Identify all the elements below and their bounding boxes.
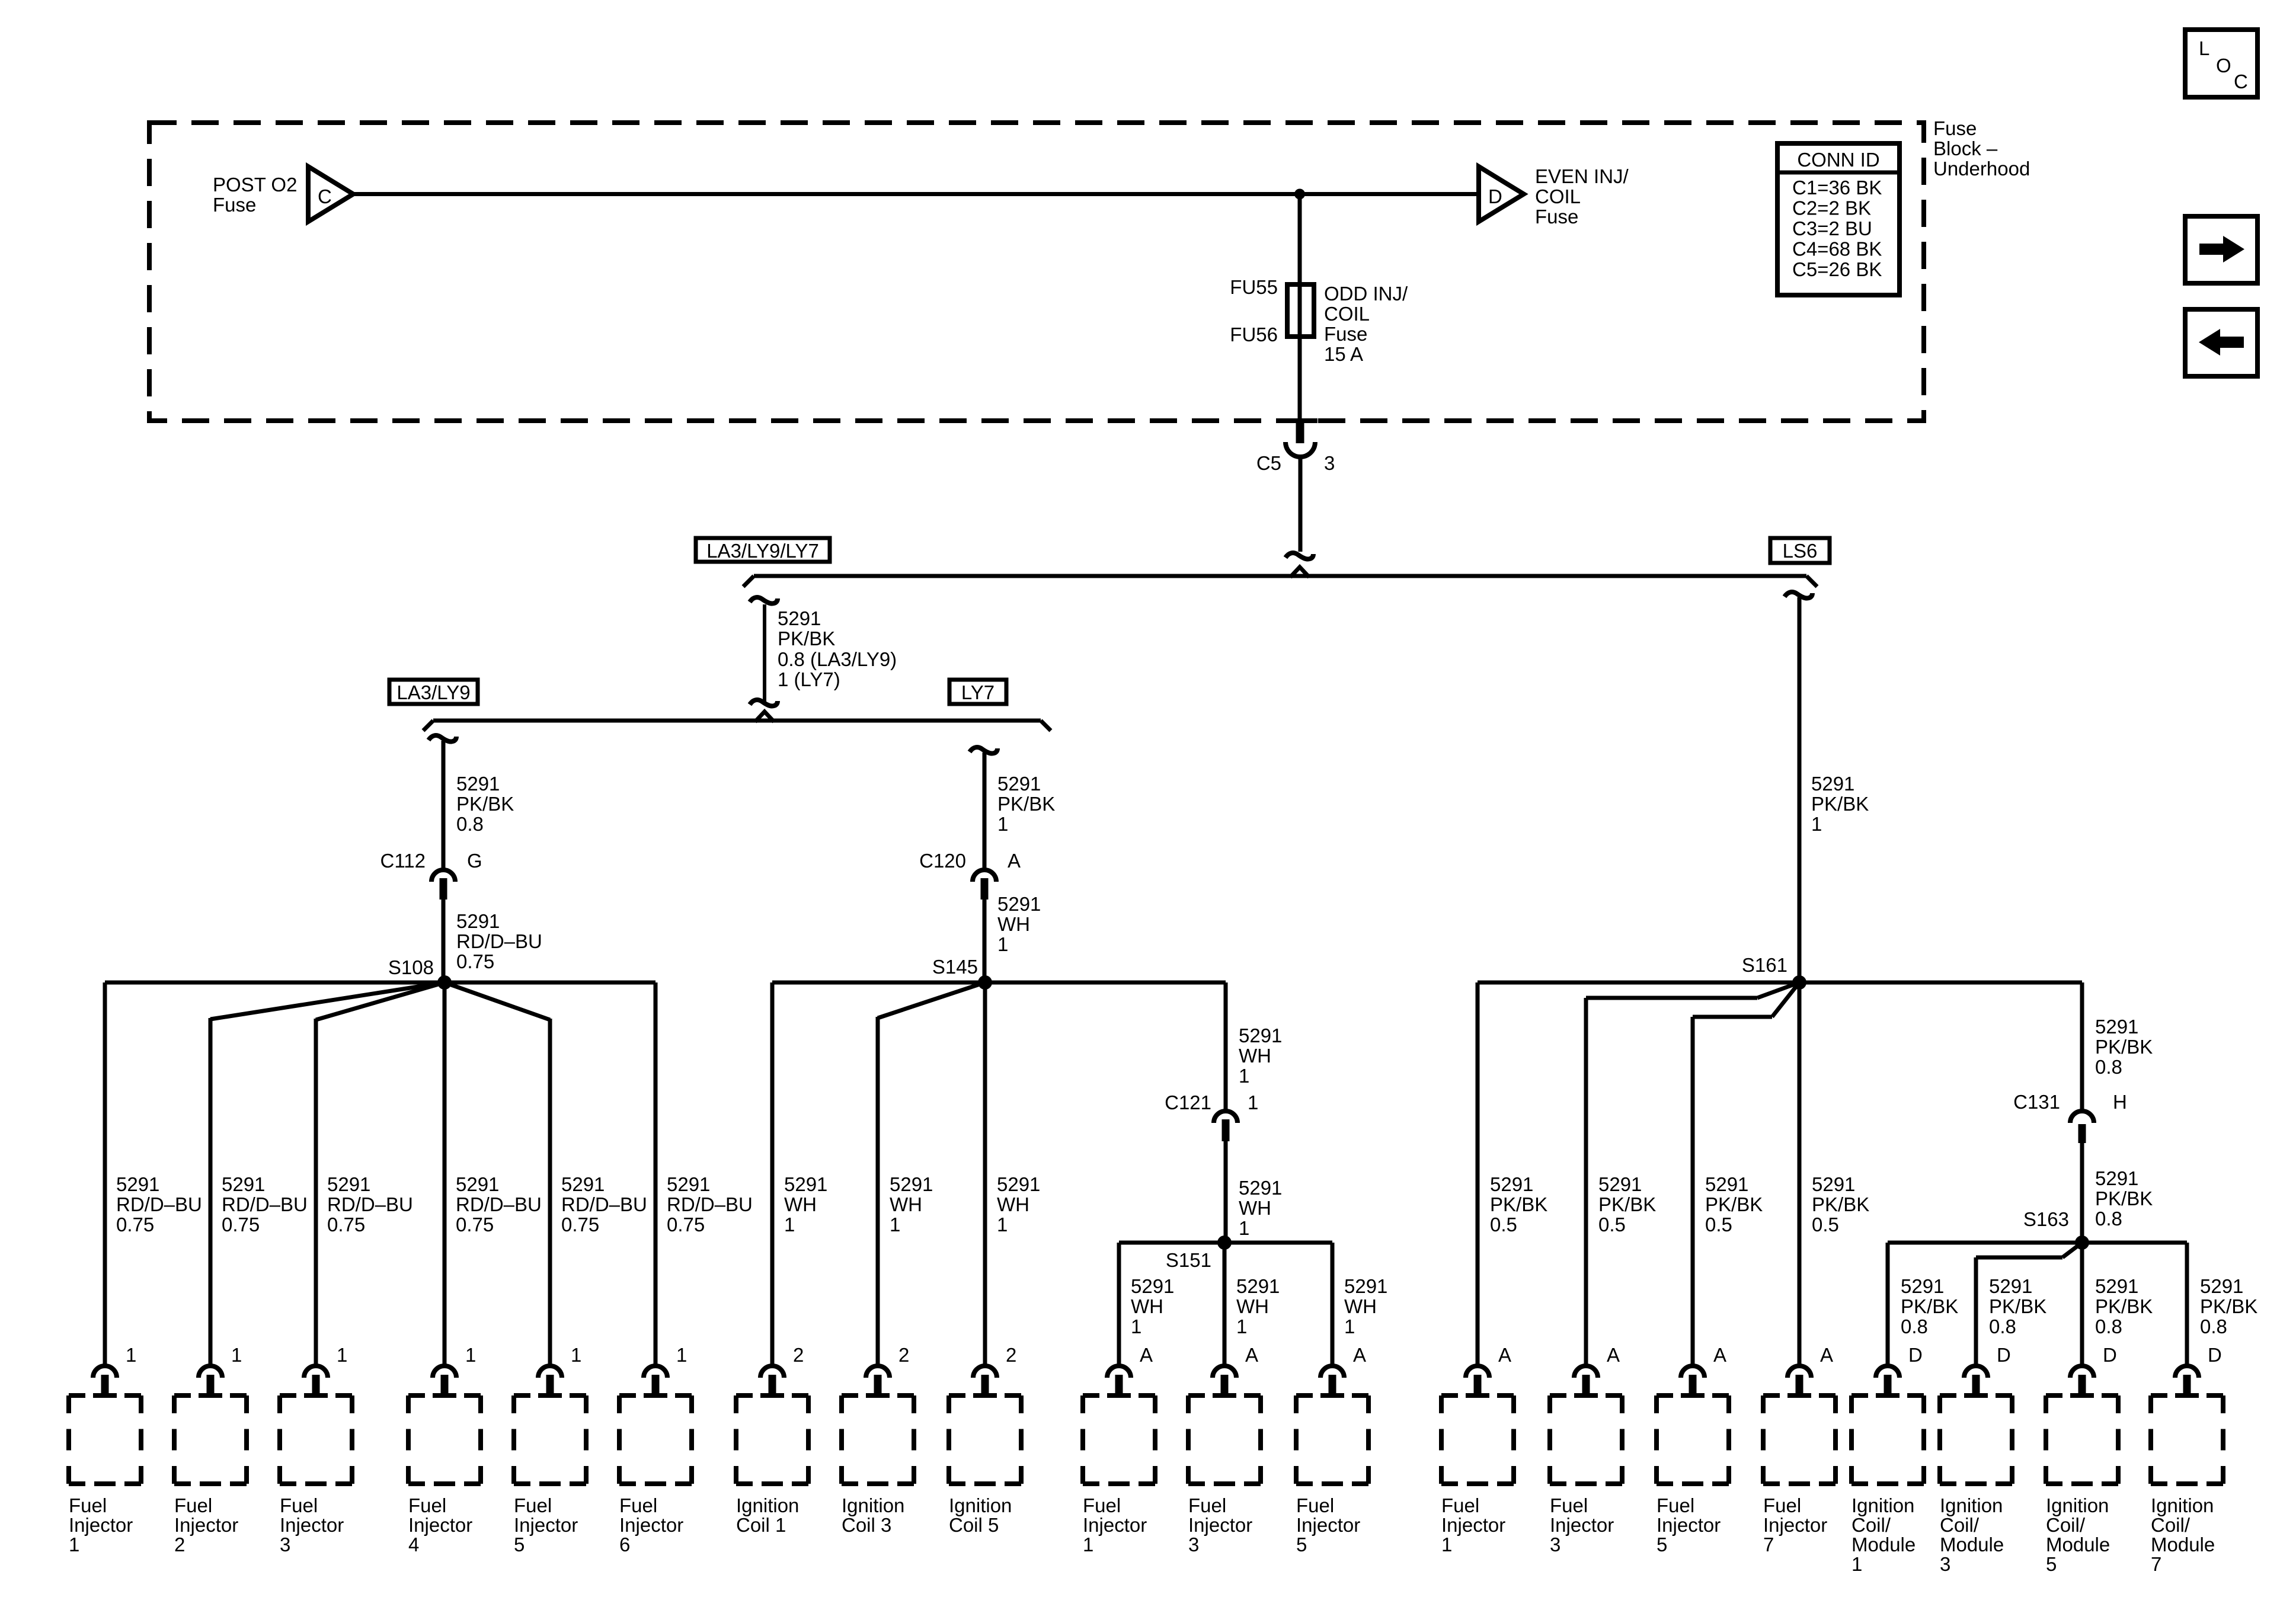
svg-text:S163: S163 bbox=[2023, 1208, 2069, 1230]
svg-text:Coil 3: Coil 3 bbox=[842, 1514, 891, 1536]
fuel injector 3 box bbox=[280, 1395, 352, 1484]
wire S163 to coil/module 3 bbox=[2062, 1243, 2082, 1257]
svg-text:1: 1 bbox=[1239, 1217, 1249, 1239]
svg-text:1: 1 bbox=[337, 1344, 347, 1366]
wire S151 to fuel injector 5 bbox=[1331, 1243, 1335, 1364]
svg-text:C121: C121 bbox=[1165, 1092, 1211, 1113]
svg-text:0.5: 0.5 bbox=[1812, 1214, 1839, 1235]
svg-text:Module: Module bbox=[2046, 1534, 2110, 1555]
svg-text:5: 5 bbox=[2046, 1553, 2057, 1575]
svg-text:FU56: FU56 bbox=[1230, 324, 1278, 345]
svg-text:2: 2 bbox=[793, 1344, 804, 1366]
connector C (POST O2 Fuse) triangle bbox=[308, 167, 353, 222]
svg-text:0.5: 0.5 bbox=[1598, 1214, 1626, 1235]
svg-text:Fuel: Fuel bbox=[619, 1494, 657, 1516]
svg-text:4: 4 bbox=[408, 1534, 419, 1555]
svg-text:A: A bbox=[1353, 1344, 1366, 1366]
svg-text:0.8: 0.8 bbox=[2095, 1056, 2122, 1078]
svg-text:Coil/: Coil/ bbox=[1851, 1514, 1891, 1536]
svg-text:0.5: 0.5 bbox=[1490, 1214, 1517, 1235]
svg-text:Ignition: Ignition bbox=[1851, 1494, 1914, 1516]
svg-text:Injector: Injector bbox=[1441, 1514, 1505, 1536]
svg-text:Fuse: Fuse bbox=[1324, 323, 1367, 345]
svg-text:D: D bbox=[1488, 185, 1502, 207]
svg-text:3: 3 bbox=[1550, 1534, 1560, 1555]
ignition coil/module 3 box bbox=[1940, 1395, 2012, 1484]
svg-text:RD/D–BU: RD/D–BU bbox=[456, 930, 542, 952]
fuse ODD INJ/COIL 15A element bbox=[1287, 284, 1314, 337]
svg-text:5291: 5291 bbox=[456, 910, 500, 932]
previous page arrow box bbox=[2185, 309, 2257, 376]
mid fuel injector 5 box bbox=[1296, 1395, 1368, 1484]
svg-text:PK/BK: PK/BK bbox=[1705, 1193, 1763, 1215]
fuse block - underhood dashed box bbox=[149, 123, 1924, 421]
svg-text:1: 1 bbox=[126, 1344, 136, 1366]
svg-text:Fuel: Fuel bbox=[1763, 1494, 1801, 1516]
fuel injector 2 box bbox=[174, 1395, 247, 1484]
svg-text:1: 1 bbox=[1236, 1315, 1247, 1337]
svg-text:5291: 5291 bbox=[890, 1173, 933, 1195]
svg-text:Fuel: Fuel bbox=[174, 1494, 212, 1516]
wire S145 to ignition coil 3 bbox=[878, 982, 985, 1018]
svg-text:S145: S145 bbox=[932, 956, 978, 978]
wire S163 to coil/module 1 bbox=[1886, 1243, 1890, 1364]
svg-text:1: 1 bbox=[69, 1534, 79, 1555]
svg-text:Injector: Injector bbox=[69, 1514, 133, 1536]
svg-text:15 A: 15 A bbox=[1324, 343, 1363, 365]
svg-text:3: 3 bbox=[280, 1534, 290, 1555]
wire fuse to fuse block edge bbox=[1298, 337, 1302, 422]
svg-text:RD/D–BU: RD/D–BU bbox=[116, 1193, 202, 1215]
svg-text:5291: 5291 bbox=[2095, 1167, 2138, 1189]
label box LY7 bbox=[949, 680, 1006, 704]
svg-text:PK/BK: PK/BK bbox=[1598, 1193, 1656, 1215]
svg-text:C: C bbox=[2234, 71, 2248, 92]
CONN ID table bbox=[1777, 143, 1900, 295]
svg-text:3: 3 bbox=[1188, 1534, 1199, 1555]
svg-text:5291: 5291 bbox=[1236, 1275, 1280, 1297]
svg-text:Fuel: Fuel bbox=[1083, 1494, 1121, 1516]
svg-text:A: A bbox=[1820, 1344, 1833, 1366]
svg-text:ODD INJ/: ODD INJ/ bbox=[1324, 283, 1408, 305]
svg-text:5291: 5291 bbox=[667, 1173, 710, 1195]
svg-text:LY7: LY7 bbox=[961, 681, 994, 703]
svg-text:5291: 5291 bbox=[1131, 1275, 1174, 1297]
wire S161 to fuel injector 1 (right) bbox=[1476, 982, 1480, 1364]
svg-text:0.75: 0.75 bbox=[561, 1214, 599, 1235]
wire POST O2 to EVEN INJ fuse bbox=[353, 192, 1479, 196]
svg-text:5291: 5291 bbox=[997, 773, 1041, 795]
svg-text:1: 1 bbox=[997, 933, 1008, 955]
svg-text:WH: WH bbox=[890, 1193, 922, 1215]
svg-text:RD/D–BU: RD/D–BU bbox=[667, 1193, 753, 1215]
svg-text:5291: 5291 bbox=[1705, 1173, 1748, 1195]
svg-text:0.8: 0.8 bbox=[456, 813, 484, 835]
svg-text:FU55: FU55 bbox=[1230, 276, 1278, 298]
svg-text:O: O bbox=[2216, 55, 2231, 76]
right fuel injector 5 box bbox=[1657, 1395, 1729, 1484]
ignition coil/module 5 box bbox=[2046, 1395, 2118, 1484]
svg-text:0.8: 0.8 bbox=[2095, 1208, 2122, 1230]
wire S151 to fuel injector 1 bbox=[1117, 1243, 1121, 1364]
svg-text:EVEN INJ/: EVEN INJ/ bbox=[1535, 165, 1629, 187]
svg-text:Injector: Injector bbox=[619, 1514, 683, 1536]
wire C120 to S145 bbox=[983, 900, 987, 982]
svg-text:5291: 5291 bbox=[1598, 1173, 1642, 1195]
wire C131 to S163 bbox=[2080, 1143, 2084, 1243]
svg-text:Coil/: Coil/ bbox=[2151, 1514, 2191, 1536]
svg-text:PK/BK: PK/BK bbox=[1811, 793, 1869, 815]
svg-text:6: 6 bbox=[619, 1534, 630, 1555]
svg-text:C2=2 BK: C2=2 BK bbox=[1792, 197, 1871, 219]
S161 splice bus bbox=[1478, 981, 2082, 985]
svg-text:0.75: 0.75 bbox=[456, 1214, 494, 1235]
svg-text:Injector: Injector bbox=[174, 1514, 238, 1536]
svg-text:5291: 5291 bbox=[456, 773, 500, 795]
svg-text:5291: 5291 bbox=[1344, 1275, 1387, 1297]
wire C112 to S108 bbox=[442, 900, 446, 982]
LOC symbol box bbox=[2185, 30, 2257, 97]
svg-text:1: 1 bbox=[1851, 1553, 1862, 1575]
svg-text:5291: 5291 bbox=[1901, 1275, 1944, 1297]
svg-text:5291: 5291 bbox=[778, 607, 821, 629]
svg-text:S151: S151 bbox=[1166, 1249, 1211, 1271]
svg-text:0.8: 0.8 bbox=[1901, 1315, 1928, 1337]
svg-text:C131: C131 bbox=[2013, 1091, 2060, 1113]
svg-text:PK/BK: PK/BK bbox=[2200, 1295, 2257, 1317]
wire S161 to fuel injector 3 (right) bbox=[1757, 982, 1799, 998]
svg-text:LA3/LY9: LA3/LY9 bbox=[396, 681, 470, 703]
svg-text:Fuel: Fuel bbox=[69, 1494, 107, 1516]
svg-text:PK/BK: PK/BK bbox=[2095, 1188, 2153, 1209]
svg-text:Fuel: Fuel bbox=[514, 1494, 552, 1516]
connector C5 pin 3 bbox=[1296, 422, 1304, 443]
svg-text:0.8 (LA3/LY9): 0.8 (LA3/LY9) bbox=[778, 648, 897, 670]
svg-text:A: A bbox=[1607, 1344, 1620, 1366]
svg-text:A: A bbox=[1140, 1344, 1153, 1366]
svg-text:Fuel: Fuel bbox=[280, 1494, 318, 1516]
svg-text:5: 5 bbox=[514, 1534, 525, 1555]
svg-text:C3=2 BU: C3=2 BU bbox=[1792, 217, 1872, 239]
svg-text:PK/BK: PK/BK bbox=[2095, 1295, 2153, 1317]
svg-text:RD/D–BU: RD/D–BU bbox=[327, 1193, 413, 1215]
svg-text:Fuel: Fuel bbox=[408, 1494, 446, 1516]
wire C5 to engine split bbox=[1299, 456, 1303, 552]
svg-text:5291: 5291 bbox=[116, 1173, 159, 1195]
svg-text:C112: C112 bbox=[380, 850, 426, 872]
svg-text:1: 1 bbox=[1248, 1092, 1258, 1113]
ignition coil 5 box bbox=[949, 1395, 1021, 1484]
svg-text:S161: S161 bbox=[1742, 954, 1787, 976]
wire LA3/LY9 branch hook bbox=[428, 735, 456, 742]
svg-text:Injector: Injector bbox=[280, 1514, 344, 1536]
svg-text:3: 3 bbox=[1940, 1553, 1950, 1575]
svg-text:Coil 5: Coil 5 bbox=[949, 1514, 999, 1536]
svg-text:5291: 5291 bbox=[222, 1173, 265, 1195]
svg-text:7: 7 bbox=[2151, 1553, 2161, 1575]
wire S108 to fuel injector 3 bbox=[316, 982, 445, 1020]
svg-text:WH: WH bbox=[1344, 1295, 1377, 1317]
svg-text:0.8: 0.8 bbox=[2200, 1315, 2227, 1337]
next page arrow box bbox=[2185, 216, 2257, 283]
svg-text:Ignition: Ignition bbox=[1940, 1494, 2003, 1516]
svg-text:5: 5 bbox=[1296, 1534, 1307, 1555]
mid fuel injector 1 box bbox=[1083, 1395, 1155, 1484]
svg-text:CONN ID: CONN ID bbox=[1797, 149, 1879, 171]
svg-text:5291: 5291 bbox=[456, 1173, 499, 1195]
svg-text:1: 1 bbox=[1811, 813, 1822, 835]
svg-text:Module: Module bbox=[1851, 1534, 1916, 1555]
svg-text:PK/BK: PK/BK bbox=[1989, 1295, 2046, 1317]
wire S161 to C131 bbox=[2080, 982, 2084, 1110]
svg-text:WH: WH bbox=[1236, 1295, 1269, 1317]
svg-text:Coil/: Coil/ bbox=[1940, 1514, 1980, 1536]
svg-text:COIL: COIL bbox=[1324, 303, 1370, 325]
svg-text:Fuse: Fuse bbox=[1933, 117, 1977, 139]
wire LY7 to C120 bbox=[983, 753, 987, 869]
svg-text:G: G bbox=[467, 850, 482, 872]
svg-text:Injector: Injector bbox=[1296, 1514, 1360, 1536]
svg-text:Ignition: Ignition bbox=[2151, 1494, 2214, 1516]
wire LS6 branch hook bbox=[1785, 592, 1812, 598]
svg-text:5291: 5291 bbox=[997, 893, 1041, 915]
svg-text:Underhood: Underhood bbox=[1933, 158, 2030, 180]
svg-text:1: 1 bbox=[571, 1344, 581, 1366]
svg-text:Coil/: Coil/ bbox=[2046, 1514, 2086, 1536]
svg-text:Block –: Block – bbox=[1933, 137, 1998, 159]
wire S161 to fuel injector 7 bbox=[1798, 982, 1802, 1364]
svg-text:RD/D–BU: RD/D–BU bbox=[456, 1193, 542, 1215]
svg-text:5291: 5291 bbox=[784, 1173, 827, 1195]
svg-text:0.8: 0.8 bbox=[1989, 1315, 2016, 1337]
label box LA3/LY9/LY7 bbox=[696, 538, 830, 562]
svg-text:C: C bbox=[318, 185, 332, 207]
svg-text:Ignition: Ignition bbox=[736, 1494, 799, 1516]
svg-text:PK/BK: PK/BK bbox=[1490, 1193, 1547, 1215]
svg-text:1: 1 bbox=[1131, 1315, 1141, 1337]
svg-text:5291: 5291 bbox=[2200, 1275, 2243, 1297]
mid fuel injector 3 box bbox=[1188, 1395, 1261, 1484]
wire LS6 to S161 bbox=[1798, 597, 1802, 982]
svg-text:RD/D–BU: RD/D–BU bbox=[222, 1193, 308, 1215]
svg-text:5291: 5291 bbox=[561, 1173, 605, 1195]
svg-text:A: A bbox=[1008, 850, 1021, 872]
wire S108 to fuel injector 1 bbox=[103, 982, 107, 1364]
svg-text:0.75: 0.75 bbox=[222, 1214, 260, 1235]
svg-text:0.75: 0.75 bbox=[116, 1214, 154, 1235]
wire S108 to fuel injector 5 bbox=[445, 982, 550, 1020]
wire split bus (LA3/LY9 - LY7) bbox=[433, 719, 1041, 723]
svg-text:Injector: Injector bbox=[1763, 1514, 1827, 1536]
svg-text:0.75: 0.75 bbox=[456, 950, 494, 972]
svg-text:Ignition: Ignition bbox=[949, 1494, 1012, 1516]
svg-text:1: 1 bbox=[997, 813, 1008, 835]
svg-text:D: D bbox=[2208, 1344, 2222, 1366]
svg-text:Injector: Injector bbox=[1083, 1514, 1147, 1536]
wire continuation squiggle bbox=[1285, 553, 1313, 559]
svg-text:Ignition: Ignition bbox=[842, 1494, 904, 1516]
svg-text:1: 1 bbox=[1441, 1534, 1452, 1555]
svg-text:1: 1 bbox=[1083, 1534, 1093, 1555]
svg-text:WH: WH bbox=[997, 1193, 1029, 1215]
wire junction to fuse FU55 bbox=[1298, 194, 1302, 285]
svg-text:RD/D–BU: RD/D–BU bbox=[561, 1193, 647, 1215]
svg-text:1: 1 bbox=[997, 1214, 1008, 1235]
svg-text:C1=36 BK: C1=36 BK bbox=[1792, 177, 1882, 199]
wire S145 to C121 bbox=[1224, 982, 1228, 1109]
svg-text:WH: WH bbox=[1131, 1295, 1163, 1317]
fuel injector 4 box bbox=[408, 1395, 481, 1484]
wire LA3/LY9 to C112 bbox=[442, 741, 446, 869]
fuel injector 5 box bbox=[514, 1395, 586, 1484]
svg-text:S108: S108 bbox=[388, 956, 434, 978]
svg-text:Injector: Injector bbox=[514, 1514, 578, 1536]
svg-text:LA3/LY9/LY7: LA3/LY9/LY7 bbox=[706, 540, 819, 562]
svg-text:Fuel: Fuel bbox=[1550, 1494, 1588, 1516]
svg-text:5291: 5291 bbox=[327, 1173, 370, 1195]
svg-text:Ignition: Ignition bbox=[2046, 1494, 2109, 1516]
solid dash at wire crossing bbox=[1282, 418, 1318, 423]
svg-text:WH: WH bbox=[1239, 1197, 1271, 1219]
svg-text:0.5: 0.5 bbox=[1705, 1214, 1732, 1235]
svg-text:WH: WH bbox=[997, 913, 1030, 935]
svg-text:H: H bbox=[2113, 1091, 2127, 1113]
svg-text:0.75: 0.75 bbox=[327, 1214, 365, 1235]
svg-text:Module: Module bbox=[1940, 1534, 2004, 1555]
right fuel injector 3 box bbox=[1550, 1395, 1622, 1484]
svg-text:PK/BK: PK/BK bbox=[1901, 1295, 1958, 1317]
svg-text:Fuse: Fuse bbox=[213, 194, 256, 216]
svg-text:L: L bbox=[2199, 37, 2209, 59]
svg-text:COIL: COIL bbox=[1535, 185, 1581, 207]
svg-text:1: 1 bbox=[231, 1344, 242, 1366]
svg-text:1: 1 bbox=[465, 1344, 476, 1366]
svg-text:5291: 5291 bbox=[1239, 1025, 1282, 1046]
svg-text:5291: 5291 bbox=[1989, 1275, 2032, 1297]
svg-text:Fuel: Fuel bbox=[1188, 1494, 1226, 1516]
svg-text:3: 3 bbox=[1324, 452, 1335, 474]
right fuel injector 7 box bbox=[1763, 1395, 1835, 1484]
split chevron to LA3/LY9/LY7 and LS6 bbox=[1290, 567, 1309, 577]
svg-text:1: 1 bbox=[784, 1214, 795, 1235]
svg-text:2: 2 bbox=[1006, 1344, 1016, 1366]
svg-text:PK/BK: PK/BK bbox=[1812, 1193, 1869, 1215]
ignition coil 1 box bbox=[736, 1395, 808, 1484]
svg-text:1 (LY7): 1 (LY7) bbox=[778, 668, 840, 690]
svg-text:PK/BK: PK/BK bbox=[456, 793, 514, 815]
svg-text:0.75: 0.75 bbox=[667, 1214, 705, 1235]
junction node on wire bbox=[1294, 189, 1305, 200]
wire S151 to fuel injector 3 bbox=[1223, 1243, 1227, 1364]
svg-text:Fuel: Fuel bbox=[1296, 1494, 1334, 1516]
S145 splice bus bbox=[772, 981, 1226, 985]
ignition coil/module 7 box bbox=[2151, 1395, 2223, 1484]
svg-text:Module: Module bbox=[2151, 1534, 2215, 1555]
wire S163 to coil/module 5 bbox=[2080, 1243, 2084, 1364]
ignition coil 3 box bbox=[842, 1395, 914, 1484]
svg-text:Fuse: Fuse bbox=[1535, 206, 1578, 228]
svg-text:D: D bbox=[2103, 1344, 2117, 1366]
svg-text:Injector: Injector bbox=[1188, 1514, 1252, 1536]
S163 splice bus bbox=[1888, 1241, 2187, 1245]
svg-text:5291: 5291 bbox=[1490, 1173, 1533, 1195]
svg-text:7: 7 bbox=[1763, 1534, 1774, 1555]
svg-text:5291: 5291 bbox=[1239, 1177, 1282, 1199]
svg-text:Fuel: Fuel bbox=[1657, 1494, 1694, 1516]
wire LY7 branch hook bbox=[970, 747, 997, 754]
svg-text:C120: C120 bbox=[919, 850, 966, 872]
svg-text:Injector: Injector bbox=[408, 1514, 472, 1536]
wire S145 to ignition coil 5 bbox=[983, 982, 987, 1364]
svg-text:5291: 5291 bbox=[2095, 1275, 2138, 1297]
wire segment bracket 5291 PK/BK bbox=[763, 604, 766, 702]
svg-text:5291: 5291 bbox=[1812, 1173, 1855, 1195]
svg-text:1: 1 bbox=[1239, 1065, 1249, 1087]
svg-text:5291: 5291 bbox=[1811, 773, 1854, 795]
svg-text:5: 5 bbox=[1657, 1534, 1667, 1555]
svg-text:Injector: Injector bbox=[1550, 1514, 1614, 1536]
svg-text:POST O2: POST O2 bbox=[213, 174, 297, 196]
wire S108 to fuel injector 4 bbox=[443, 982, 447, 1364]
svg-text:D: D bbox=[1908, 1344, 1923, 1366]
svg-text:C5: C5 bbox=[1256, 452, 1281, 474]
svg-text:5291: 5291 bbox=[997, 1173, 1040, 1195]
label box LS6 bbox=[1770, 538, 1830, 563]
svg-text:1: 1 bbox=[890, 1214, 900, 1235]
wire C121 to S151 bbox=[1224, 1141, 1228, 1243]
wire split bus (LA3/LY9/LY7 - LS6) bbox=[754, 574, 1806, 578]
svg-text:C4=68 BK: C4=68 BK bbox=[1792, 238, 1882, 260]
svg-text:5291: 5291 bbox=[2095, 1016, 2138, 1038]
wire S161 to fuel injector 5 (right) bbox=[1772, 982, 1799, 1017]
svg-text:WH: WH bbox=[1239, 1045, 1271, 1067]
svg-text:A: A bbox=[1713, 1344, 1726, 1366]
svg-text:PK/BK: PK/BK bbox=[778, 628, 835, 649]
connector D (EVEN INJ/COIL Fuse) triangle bbox=[1479, 167, 1524, 222]
right fuel injector 1 box bbox=[1441, 1395, 1514, 1484]
svg-text:A: A bbox=[1245, 1344, 1258, 1366]
svg-text:D: D bbox=[1997, 1344, 2011, 1366]
fuel injector 1 box bbox=[69, 1395, 141, 1484]
svg-text:C5=26 BK: C5=26 BK bbox=[1792, 258, 1882, 280]
svg-text:WH: WH bbox=[784, 1193, 817, 1215]
svg-text:0.8: 0.8 bbox=[2095, 1315, 2122, 1337]
svg-text:PK/BK: PK/BK bbox=[997, 793, 1055, 815]
ignition coil/module 1 box bbox=[1851, 1395, 1924, 1484]
S151 splice bus bbox=[1119, 1241, 1332, 1245]
svg-text:2: 2 bbox=[174, 1534, 185, 1555]
svg-text:Injector: Injector bbox=[1657, 1514, 1721, 1536]
svg-text:PK/BK: PK/BK bbox=[2095, 1036, 2153, 1058]
fuel injector 6 box bbox=[619, 1395, 692, 1484]
svg-text:LS6: LS6 bbox=[1783, 540, 1818, 562]
svg-text:Fuel: Fuel bbox=[1441, 1494, 1479, 1516]
wire S108 to fuel injector 6 bbox=[654, 982, 658, 1364]
wire S145 to ignition coil 1 bbox=[770, 982, 775, 1364]
label box LA3/LY9 bbox=[389, 680, 478, 704]
svg-text:2: 2 bbox=[898, 1344, 909, 1366]
split chevron to LA3/LY9 and LY7 bbox=[755, 712, 774, 722]
wire S163 to coil/module 7 bbox=[2185, 1243, 2189, 1364]
svg-text:Coil 1: Coil 1 bbox=[736, 1514, 786, 1536]
svg-text:A: A bbox=[1498, 1344, 1511, 1366]
svg-text:1: 1 bbox=[676, 1344, 687, 1366]
wire S108 to fuel injector 2 bbox=[210, 982, 445, 1019]
S108 splice bus bbox=[105, 981, 655, 985]
svg-text:1: 1 bbox=[1344, 1315, 1355, 1337]
